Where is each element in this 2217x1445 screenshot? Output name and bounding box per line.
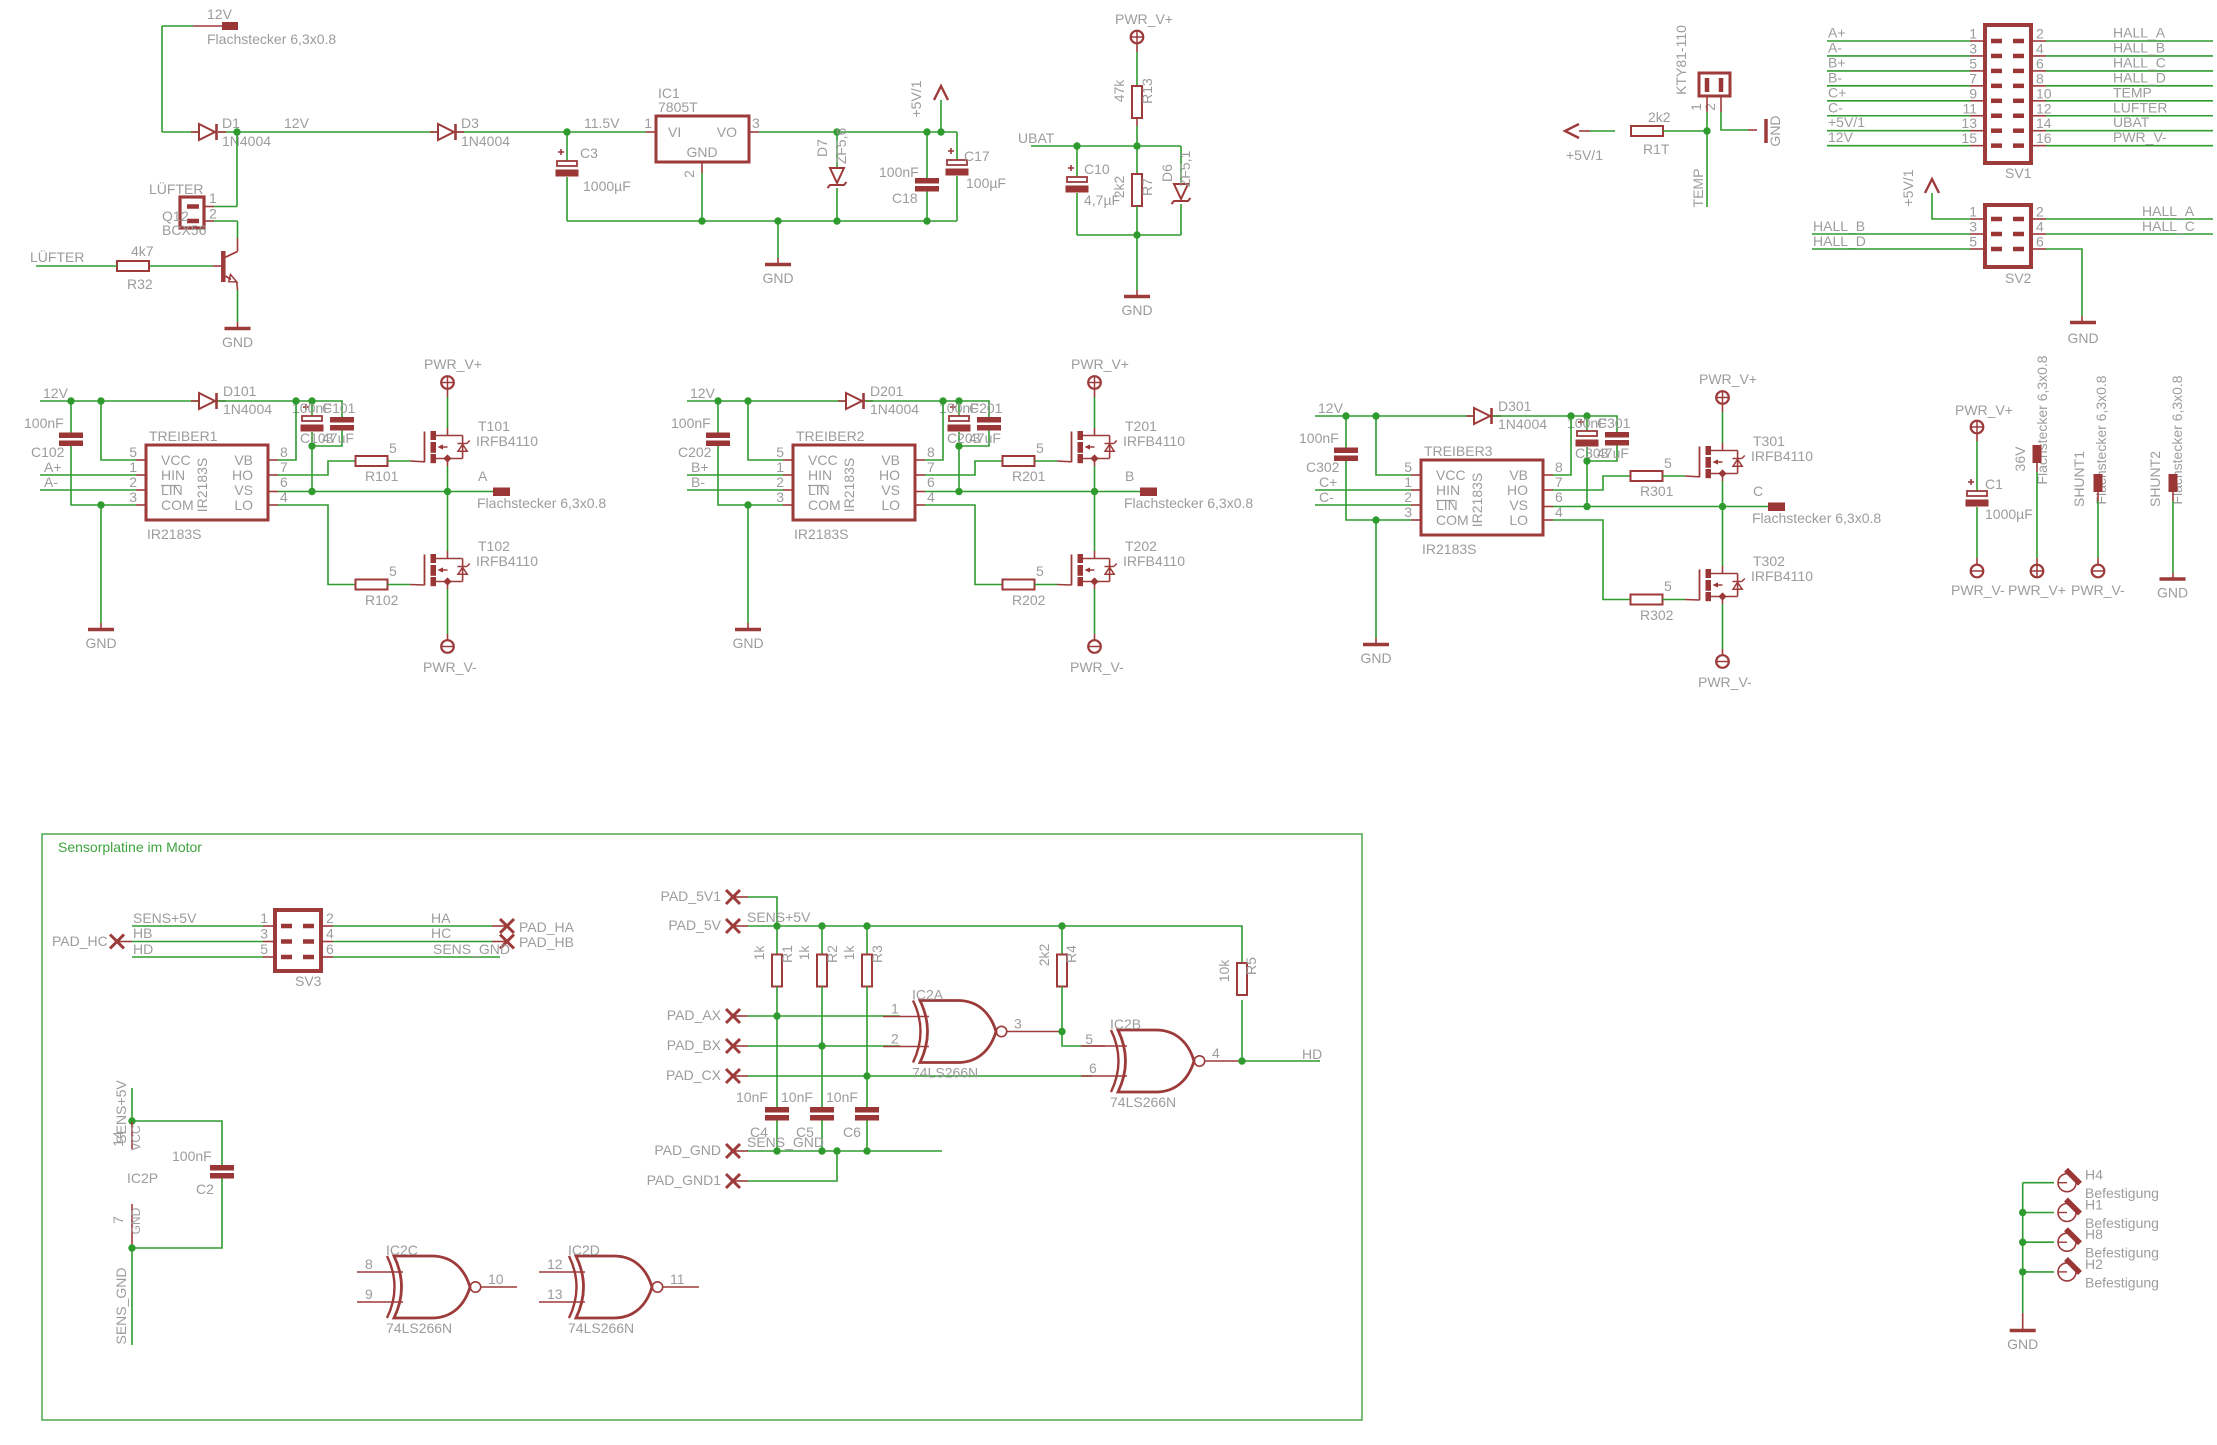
svg-text:VCC: VCC: [1436, 467, 1466, 483]
capacitor C101 100nF: [330, 417, 354, 423]
svg-text:6: 6: [1555, 489, 1563, 505]
wire LO to gate resistor low: [268, 504, 278, 506]
wire Q1 emitter to ground: [236, 282, 239, 290]
svg-text:PAD_5V: PAD_5V: [668, 917, 721, 933]
capacitor C303 47uF: [1586, 416, 1588, 431]
wire LO to gate resistor low: [915, 504, 925, 506]
svg-text:Sensorplatine im Motor: Sensorplatine im Motor: [58, 839, 202, 855]
svg-text:A-: A-: [44, 474, 58, 490]
wire IC1 gnd pin: [701, 162, 703, 173]
svg-text:2: 2: [776, 474, 784, 490]
svg-text:6: 6: [280, 474, 288, 490]
svg-text:IRFB4110: IRFB4110: [1751, 448, 1813, 464]
svg-text:5: 5: [1664, 578, 1672, 594]
svg-text:12V: 12V: [1318, 400, 1344, 416]
svg-text:SV1: SV1: [2005, 165, 2032, 181]
svg-text:B+: B+: [691, 459, 709, 475]
SV1 pin 7 wire B-: [1827, 85, 1970, 87]
gate IC2D 74LS266N: [569, 1256, 663, 1318]
svg-text:LIN: LIN: [161, 482, 183, 498]
svg-text:GND: GND: [129, 1207, 143, 1234]
svg-text:R4: R4: [1063, 945, 1079, 963]
svg-text:R7: R7: [1139, 178, 1155, 196]
svg-text:SHUNT2: SHUNT2: [2147, 451, 2163, 507]
svg-text:R302: R302: [1640, 607, 1674, 623]
wire caps to VS node: [958, 446, 960, 492]
svg-text:TEMP: TEMP: [2113, 84, 2152, 100]
svg-text:R1: R1: [779, 945, 795, 963]
wire rail to bootstrap caps: [865, 401, 989, 417]
supply arrow +5V/1: [937, 128, 944, 135]
transistor T202 IRFB4110: [1071, 555, 1073, 586]
ground below Q1: [237, 322, 239, 328]
svg-text:47uF: 47uF: [322, 430, 354, 446]
svg-text:4k7: 4k7: [131, 243, 154, 259]
wire KTY pin1: [1706, 112, 1708, 131]
SV1 pin 8 wire HALL_D: [2013, 84, 2024, 89]
wire LUEFTER pin2 to Q1 collector: [214, 220, 238, 222]
ground below SHUNT2: [2160, 577, 2186, 581]
svg-text:100nF: 100nF: [671, 415, 711, 431]
svg-text:HALL_A: HALL_A: [2142, 203, 2195, 219]
svg-text:PWR_V-: PWR_V-: [1698, 674, 1752, 690]
wire IC2A out to IC2B pin5: [1058, 1028, 1065, 1035]
svg-text:16: 16: [2036, 130, 2052, 146]
svg-text:1: 1: [1969, 204, 1977, 220]
svg-text:8: 8: [927, 444, 935, 460]
svg-text:IRFB4110: IRFB4110: [1123, 433, 1185, 449]
svg-text:100nF: 100nF: [1299, 430, 1339, 446]
capacitor C1 1000uF 36V: [1976, 441, 1978, 491]
svg-text:PWR_V+: PWR_V+: [424, 356, 482, 372]
svg-text:Flachstecker 6,3x0.8: Flachstecker 6,3x0.8: [1124, 495, 1253, 511]
svg-text:10k: 10k: [1216, 959, 1232, 983]
svg-text:C2: C2: [196, 1181, 214, 1197]
svg-text:1: 1: [644, 115, 652, 131]
mounting hole H4 Befestigung: [2023, 1182, 2054, 1184]
svg-text:4,7µF: 4,7µF: [1084, 192, 1120, 208]
svg-text:C201: C201: [969, 400, 1003, 416]
svg-text:HC: HC: [431, 925, 451, 941]
svg-text:SV2: SV2: [2005, 270, 2032, 286]
ground under UBAT divider: [1136, 235, 1138, 290]
svg-text:PWR_V-: PWR_V-: [1951, 582, 2005, 598]
diode D301 1N4004: [1474, 408, 1490, 424]
svg-text:HIN: HIN: [1436, 482, 1460, 498]
power symbol PWR_V- driver: [441, 640, 454, 653]
ground symbol GND: [777, 221, 779, 258]
gate IC2A 74LS266N: [913, 1001, 1007, 1063]
svg-text:TREIBER2: TREIBER2: [796, 428, 865, 444]
svg-text:PAD_5V1: PAD_5V1: [661, 888, 722, 904]
SV1 pin 3 wire A-: [1827, 55, 1970, 57]
wire T-top source to VS: [1722, 474, 1724, 482]
svg-text:12V: 12V: [43, 385, 69, 401]
svg-text:R5: R5: [1243, 957, 1259, 975]
SV1 pin 13 wire +5V/1: [1827, 130, 1970, 132]
svg-text:IC2P: IC2P: [127, 1170, 158, 1186]
ground below mounting holes: [2022, 1313, 2024, 1329]
svg-text:9: 9: [1969, 85, 1977, 101]
svg-text:11.5V: 11.5V: [584, 115, 620, 131]
svg-text:IRFB4110: IRFB4110: [476, 433, 538, 449]
svg-text:VS: VS: [881, 482, 900, 498]
wire VS phase node: [1543, 506, 1553, 508]
svg-text:11: 11: [670, 1271, 685, 1287]
svg-text:5: 5: [1404, 459, 1412, 475]
svg-text:IRFB4110: IRFB4110: [476, 553, 538, 569]
resistor R302: [1631, 595, 1663, 605]
svg-text:IRFB4110: IRFB4110: [1751, 568, 1813, 584]
svg-text:12V: 12V: [284, 115, 310, 131]
svg-text:T102: T102: [478, 538, 510, 554]
wire T-top source to VS: [447, 459, 449, 467]
svg-text:PAD_GND1: PAD_GND1: [647, 1172, 722, 1188]
resistor R2 1k: [821, 926, 823, 955]
resistor R13 47k: [1132, 86, 1142, 118]
svg-text:7: 7: [110, 1216, 126, 1224]
svg-text:VCC: VCC: [161, 452, 191, 468]
wire caps to VS node: [1586, 461, 1588, 507]
svg-text:4: 4: [1212, 1045, 1220, 1061]
SV1 pin 4 wire HALL_B: [2013, 54, 2024, 59]
svg-text:R202: R202: [1012, 592, 1046, 608]
svg-text:LO: LO: [1509, 512, 1528, 528]
wire rail to bootstrap caps: [218, 401, 342, 417]
mounting hole H2 Befestigung: [2023, 1271, 2054, 1273]
wire T-bot source to PWR_V-: [1722, 597, 1724, 605]
svg-text:5: 5: [389, 563, 397, 579]
svg-text:IC2A: IC2A: [912, 987, 944, 1003]
svg-text:R102: R102: [365, 592, 399, 608]
connector SV2: [1985, 205, 2031, 267]
SV1 pin 1 wire A+: [1827, 40, 1970, 42]
svg-text:PWR_V+: PWR_V+: [1115, 11, 1173, 27]
capacitor C6 10nF: [866, 1076, 868, 1107]
svg-text:PWR_V-: PWR_V-: [2113, 129, 2167, 145]
wire HO to gate resistor: [268, 474, 278, 476]
svg-text:PWR_V-: PWR_V-: [2071, 582, 2125, 598]
svg-text:VCC: VCC: [129, 1125, 143, 1151]
svg-text:Befestigung: Befestigung: [2085, 1274, 2159, 1290]
capacitor C202 100nF: [717, 401, 719, 433]
ground rail under IC1: [567, 220, 957, 222]
svg-text:8: 8: [2036, 70, 2044, 86]
svg-text:R201: R201: [1012, 468, 1046, 484]
svg-text:47uF: 47uF: [1597, 445, 1629, 461]
svg-text:HD: HD: [1302, 1046, 1322, 1062]
svg-text:2: 2: [681, 170, 697, 178]
wire T-bot source to PWR_V-: [1094, 582, 1096, 590]
node TEMP stub: [1706, 131, 1708, 207]
svg-text:6: 6: [2036, 234, 2044, 250]
svg-text:PAD_HC: PAD_HC: [52, 933, 108, 949]
svg-text:2: 2: [209, 206, 217, 222]
svg-text:1N4004: 1N4004: [870, 401, 919, 417]
SV1 pin 14 wire UBAT: [2013, 128, 2024, 133]
wire caps to VS node: [311, 446, 313, 492]
wire PAD_5V1 to rail: [748, 897, 777, 926]
power symbol PWR_V- driver: [1716, 655, 1729, 668]
svg-text:36V: 36V: [2012, 446, 2028, 472]
svg-text:GND: GND: [2007, 1336, 2038, 1352]
ground driver 3: [1363, 643, 1389, 647]
svg-text:100nF: 100nF: [879, 164, 919, 180]
svg-text:C101: C101: [322, 400, 356, 416]
svg-text:BCX56: BCX56: [162, 222, 207, 238]
wire LUEFTER pin1: [214, 206, 238, 208]
svg-text:GND: GND: [686, 144, 717, 160]
svg-text:1000µF: 1000µF: [1985, 506, 2033, 522]
svg-text:2k2: 2k2: [1648, 109, 1671, 125]
wire SV2 pin2 HALL_A: [2031, 218, 2046, 220]
svg-text:R2: R2: [824, 945, 840, 963]
power symbol PWR_V- driver: [1088, 640, 1101, 653]
svg-text:VI: VI: [668, 124, 681, 140]
svg-text:PAD_GND: PAD_GND: [654, 1142, 721, 1158]
svg-text:C: C: [1753, 483, 1763, 499]
svg-text:PWR_V+: PWR_V+: [1071, 356, 1129, 372]
wire LO to gate resistor low: [1543, 519, 1553, 521]
resistor R1T 2k2: [1631, 126, 1663, 136]
resistor R3 1k: [866, 926, 868, 955]
resistor R32 4k7: [117, 261, 149, 271]
svg-text:C102: C102: [31, 444, 65, 460]
svg-text:VB: VB: [1509, 467, 1528, 483]
wire 12V input: [162, 25, 193, 27]
svg-text:T101: T101: [478, 418, 510, 434]
svg-text:R3: R3: [869, 945, 885, 963]
svg-text:A-: A-: [1828, 39, 1842, 55]
svg-text:C18: C18: [892, 190, 918, 206]
svg-text:1: 1: [260, 910, 268, 926]
svg-text:3: 3: [129, 489, 137, 505]
svg-text:9: 9: [365, 1286, 373, 1302]
svg-text:VCC: VCC: [808, 452, 838, 468]
svg-text:+5V/1: +5V/1: [1900, 169, 1916, 206]
capacitor C17 100uF: [956, 132, 958, 160]
wire LUEFTER net: [36, 265, 117, 267]
svg-text:4: 4: [326, 926, 334, 942]
capacitor C3 1000uF: [566, 132, 568, 161]
svg-text:1: 1: [776, 459, 784, 475]
svg-text:VS: VS: [1509, 497, 1528, 513]
svg-text:1N4004: 1N4004: [461, 133, 510, 149]
svg-text:47uF: 47uF: [969, 430, 1001, 446]
svg-text:C-: C-: [1319, 489, 1334, 505]
svg-text:3: 3: [1969, 40, 1977, 56]
svg-text:T201: T201: [1125, 418, 1157, 434]
svg-text:47k: 47k: [1111, 79, 1127, 103]
svg-text:PAD_CX: PAD_CX: [666, 1067, 722, 1083]
svg-text:A+: A+: [1828, 25, 1846, 41]
wire mounting hole trunk: [2022, 1183, 2024, 1313]
wire HD output: [1238, 1057, 1245, 1064]
svg-text:6: 6: [1089, 1060, 1097, 1076]
svg-text:1: 1: [1969, 26, 1977, 42]
svg-text:PAD_HB: PAD_HB: [519, 934, 574, 950]
svg-text:IR2183S: IR2183S: [841, 458, 857, 512]
wire UBAT bottom link: [1077, 234, 1181, 236]
svg-text:H8: H8: [2085, 1226, 2103, 1242]
svg-text:1000µF: 1000µF: [583, 178, 631, 194]
svg-text:TREIBER1: TREIBER1: [149, 428, 218, 444]
wire COM to ground: [136, 504, 146, 506]
svg-text:1N4004: 1N4004: [222, 133, 271, 149]
svg-text:SV3: SV3: [295, 973, 322, 989]
wire KTY pin2 to GND: [1721, 112, 1748, 130]
svg-text:5: 5: [776, 444, 784, 460]
resistor R4 2k2: [1061, 926, 1063, 955]
wire main 12V rail: [162, 131, 199, 133]
svg-text:7805T: 7805T: [658, 99, 698, 115]
resistor R1 1k: [776, 926, 778, 955]
svg-text:PWR_V+: PWR_V+: [1955, 402, 2013, 418]
wire VB bootstrap: [1543, 474, 1553, 476]
svg-text:LÜFTER: LÜFTER: [30, 248, 84, 265]
svg-text:5: 5: [1969, 55, 1977, 71]
svg-text:12: 12: [2036, 100, 2052, 116]
SV1 pin 5 wire B+: [1827, 70, 1970, 72]
svg-text:10nF: 10nF: [736, 1089, 768, 1105]
wire PAD_CX to IC2B pin6: [748, 1075, 1092, 1077]
svg-text:PWR_V-: PWR_V-: [423, 659, 477, 675]
svg-text:SENS_GND: SENS_GND: [113, 1267, 129, 1344]
wire SV2 pin4 HALL_C: [2031, 233, 2046, 235]
svg-text:Flachstecker 6,3x0.8: Flachstecker 6,3x0.8: [477, 495, 606, 511]
svg-text:12V: 12V: [1828, 129, 1854, 145]
wire VCC riser: [101, 401, 136, 460]
svg-text:2: 2: [1404, 489, 1412, 505]
svg-text:IC2D: IC2D: [568, 1242, 600, 1258]
ground driver 1: [88, 628, 114, 632]
svg-text:+5V/1: +5V/1: [1566, 147, 1603, 163]
wire SV3 pin2 HA to PAD_HA: [333, 925, 492, 927]
diode D3: [438, 124, 454, 140]
capacitor C201 100nF: [977, 417, 1001, 423]
diode D201 1N4004: [846, 393, 862, 409]
svg-text:D201: D201: [870, 383, 904, 399]
svg-text:GND: GND: [2157, 585, 2188, 601]
resistor R201: [1003, 456, 1035, 466]
zener diode D6 ZF5,1: [1180, 146, 1182, 184]
svg-text:5: 5: [1036, 563, 1044, 579]
svg-text:D7: D7: [814, 139, 830, 157]
svg-text:IRFB4110: IRFB4110: [1123, 553, 1185, 569]
svg-text:13: 13: [1961, 115, 1977, 131]
SV1 pin 9 wire C+: [1827, 100, 1970, 102]
svg-text:8: 8: [280, 444, 288, 460]
wire PAD_GND1 to SENS_GND: [748, 1151, 837, 1181]
wire T-top source to VS: [1094, 459, 1096, 467]
svg-text:3: 3: [260, 926, 268, 942]
svg-text:1N4004: 1N4004: [1498, 416, 1547, 432]
svg-text:PWR_V-: PWR_V-: [1070, 659, 1124, 675]
wire gate resistor low to T-bot gate: [388, 584, 411, 586]
capacitor C18 100nF: [923, 128, 930, 135]
wire VB bootstrap: [915, 459, 925, 461]
svg-text:UBAT: UBAT: [1018, 130, 1055, 146]
svg-text:10nF: 10nF: [781, 1089, 813, 1105]
wire HO to gate resistor: [1543, 489, 1553, 491]
wire VB bootstrap: [268, 459, 278, 461]
SV1 pin 15 wire 12V: [1827, 145, 1970, 147]
diode D101 1N4004: [199, 393, 215, 409]
ground below SV2: [2070, 321, 2096, 325]
svg-text:C301: C301: [1597, 415, 1631, 431]
svg-text:LO: LO: [234, 497, 253, 513]
wire gate resistor to T-top gate: [1035, 460, 1058, 462]
wire HO to gate resistor: [915, 474, 925, 476]
svg-text:ZF5,6: ZF5,6: [833, 128, 849, 165]
svg-text:6: 6: [2036, 55, 2044, 71]
svg-text:+5V/1: +5V/1: [1828, 114, 1865, 130]
wire VCC riser: [748, 401, 783, 460]
svg-text:PAD_AX: PAD_AX: [667, 1007, 722, 1023]
svg-text:B+: B+: [1828, 54, 1846, 70]
svg-text:R1T: R1T: [1643, 141, 1670, 157]
svg-text:2: 2: [2036, 26, 2044, 42]
svg-text:LO: LO: [881, 497, 900, 513]
svg-text:C+: C+: [1828, 84, 1846, 100]
wire VS phase node: [268, 491, 278, 493]
transistor T101 IRFB4110: [424, 432, 426, 463]
svg-text:VB: VB: [881, 452, 900, 468]
svg-text:VS: VS: [234, 482, 253, 498]
svg-text:PAD_BX: PAD_BX: [667, 1037, 722, 1053]
svg-text:5: 5: [1969, 234, 1977, 250]
capacitor C103 47uF: [311, 401, 313, 416]
svg-text:100µF: 100µF: [966, 175, 1006, 191]
power symbol PWR_V- bulk: [1971, 565, 1984, 578]
capacitor C301 100nF: [1605, 432, 1629, 438]
svg-text:LIN: LIN: [1436, 497, 1458, 513]
svg-text:GND: GND: [1767, 115, 1783, 146]
wire SENS_GND down: [131, 1248, 133, 1345]
svg-text:D3: D3: [461, 115, 479, 131]
svg-text:C10: C10: [1084, 161, 1110, 177]
capacitor C203 47uF: [958, 401, 960, 416]
svg-text:Flachstecker 6,3x0.8: Flachstecker 6,3x0.8: [207, 31, 336, 47]
svg-text:C202: C202: [678, 444, 712, 460]
svg-text:7: 7: [927, 459, 935, 475]
svg-text:LÜFTER: LÜFTER: [149, 180, 203, 197]
svg-text:IR2183S: IR2183S: [1422, 541, 1476, 557]
svg-text:R13: R13: [1139, 78, 1155, 104]
wire IC1 output: [749, 131, 759, 133]
svg-text:74LS266N: 74LS266N: [912, 1065, 978, 1081]
supply arrow +5V/1 left: [1565, 124, 1579, 138]
svg-text:D6: D6: [1159, 164, 1175, 182]
svg-text:GND: GND: [1360, 650, 1391, 666]
resistor R301: [1631, 471, 1663, 481]
capacitor C4 10nF: [776, 1016, 778, 1107]
svg-text:A: A: [478, 468, 488, 484]
svg-text:H1: H1: [2085, 1197, 2103, 1213]
svg-text:10: 10: [488, 1271, 504, 1287]
svg-text:HALL_B: HALL_B: [1813, 218, 1865, 234]
resistor R5 10k: [1241, 942, 1243, 962]
svg-text:IC2C: IC2C: [386, 1242, 418, 1258]
svg-text:3: 3: [1969, 219, 1977, 235]
transistor T302 IRFB4110: [1699, 570, 1701, 601]
svg-text:HIN: HIN: [808, 467, 832, 483]
svg-text:VB: VB: [234, 452, 253, 468]
wire gate resistor low to T-bot gate: [1035, 584, 1058, 586]
svg-text:13: 13: [547, 1286, 563, 1302]
svg-text:15: 15: [1961, 130, 1977, 146]
svg-text:IR2183S: IR2183S: [147, 526, 201, 542]
